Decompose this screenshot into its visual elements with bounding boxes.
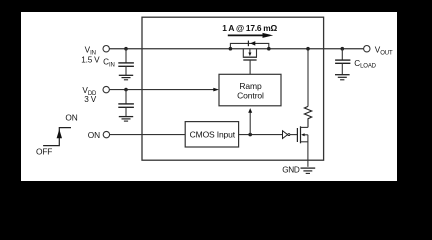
svg-text:GND: GND	[282, 165, 300, 174]
node: VDD cap tap	[124, 88, 128, 92]
svg-text:OFF: OFF	[36, 147, 52, 157]
node: resistor tap	[306, 47, 310, 51]
terminal VIN	[81, 45, 109, 64]
node: diode right junction	[267, 47, 271, 51]
node: CIN tap	[124, 47, 128, 51]
svg-text:1 A @ 17.6 mΩ: 1 A @ 17.6 mΩ	[222, 23, 277, 33]
ground: CLOAD	[335, 75, 350, 80]
block: Ramp Control	[219, 74, 281, 106]
wire: VDD to Ramp Control (arrow)	[109, 88, 219, 92]
wire: VIN rail to VOUT (top rail)	[109, 48, 363, 50]
svg-text:Control: Control	[237, 90, 264, 100]
capacitor CIN	[103, 49, 134, 75]
wire: ON to CMOS Input	[110, 134, 186, 136]
terminal VDD	[82, 86, 109, 104]
ground: GND pin	[282, 165, 315, 174]
svg-text:3 V: 3 V	[84, 95, 96, 104]
transistor Q2 (NMOS)	[297, 126, 308, 143]
current flow arrow	[228, 33, 273, 38]
wire: Q2 source/body to GND	[307, 135, 309, 167]
ground: CIN	[119, 75, 133, 80]
capacitor on VDD	[118, 90, 134, 117]
label: 1 A @ 17.6 mOhm	[222, 23, 277, 33]
node: gate drive tap	[248, 133, 252, 137]
wire: CMOS Input to buffer	[239, 134, 283, 136]
ground: VDD cap	[119, 117, 133, 122]
buffer U2	[283, 131, 298, 139]
switch waveform ON/OFF	[36, 112, 78, 156]
terminal VOUT	[364, 45, 393, 56]
svg-text:1.5 V: 1.5 V	[81, 55, 100, 64]
svg-text:ON: ON	[65, 112, 77, 122]
capacitor CLOAD	[335, 49, 377, 75]
resistor R1	[304, 49, 311, 128]
svg-text:CMOS Input: CMOS Input	[190, 130, 236, 140]
svg-text:Ramp: Ramp	[239, 81, 262, 91]
pass transistor Q1 (PMOS)	[243, 49, 257, 60]
node: CLOAD tap	[341, 47, 345, 51]
wire: Q1 gate to Ramp Control	[249, 60, 251, 74]
body diode D1 across Q1	[230, 41, 268, 49]
terminal ON	[88, 130, 110, 140]
node: diode left junction	[229, 47, 233, 51]
wire: tap up to Ramp Control (arrow)	[248, 108, 252, 135]
block: CMOS Input	[185, 122, 238, 147]
svg-text:ON: ON	[88, 130, 100, 140]
IC boundary box	[142, 17, 324, 160]
